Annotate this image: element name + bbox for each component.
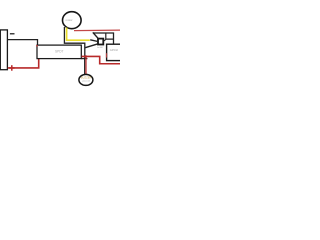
transistor Q1 body <box>98 39 103 45</box>
buzzer LS1 <box>79 74 93 85</box>
svg-text:piezo12: piezo12 <box>82 80 90 82</box>
wire battery minus to switch (black) <box>7 40 37 47</box>
battery minus label <box>10 33 15 35</box>
wire motor black to emitter net <box>64 27 84 59</box>
wire red motor to top rail <box>74 29 120 32</box>
transistor Q1 pin top (collector lead) <box>93 32 99 38</box>
wire switch bottom to emitter junction (black) <box>81 58 87 60</box>
wire red branch to buzzer <box>85 57 87 75</box>
wire red switch to right rail <box>82 56 121 63</box>
wire black branch to buzzer <box>84 59 86 75</box>
wire collector inner loop <box>106 33 114 39</box>
svg-text:bc547: bc547 <box>97 47 104 49</box>
controller U1 red pin <box>106 53 108 57</box>
junction red bendpoint <box>85 55 87 57</box>
wire motor yellow to base <box>67 28 90 41</box>
wire battery plus to switch (red) <box>8 59 39 68</box>
battery B1 <box>0 30 7 70</box>
svg-text:BUZZER: BUZZER <box>81 77 92 80</box>
transistor Q1 pin bottom (emitter lead) <box>85 44 98 48</box>
switch S1 top-left red pin <box>36 45 38 47</box>
svg-text:SPDT: SPDT <box>55 49 64 53</box>
controller U1 <box>107 44 124 60</box>
svg-text:motor: motor <box>66 18 73 22</box>
motor M1 <box>63 12 82 29</box>
wire transistor right pin link <box>103 39 106 41</box>
switch S1 <box>37 45 81 59</box>
transistor Q1 pin middle (base lead) <box>90 40 98 42</box>
wire collector to controller (black staple) <box>94 33 114 44</box>
battery plus label <box>9 65 15 71</box>
svg-text:GPIO2: GPIO2 <box>110 48 119 52</box>
